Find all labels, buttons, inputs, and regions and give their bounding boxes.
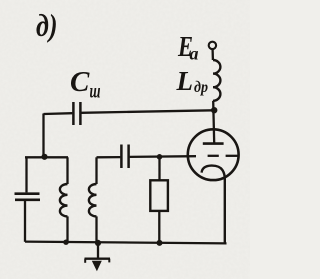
svg-text:др: др xyxy=(194,79,208,96)
svg-text:д): д) xyxy=(36,7,58,43)
svg-text:L: L xyxy=(176,66,194,96)
svg-text:а: а xyxy=(190,44,199,64)
svg-text:C: C xyxy=(70,66,90,98)
svg-text:ш: ш xyxy=(90,81,101,103)
